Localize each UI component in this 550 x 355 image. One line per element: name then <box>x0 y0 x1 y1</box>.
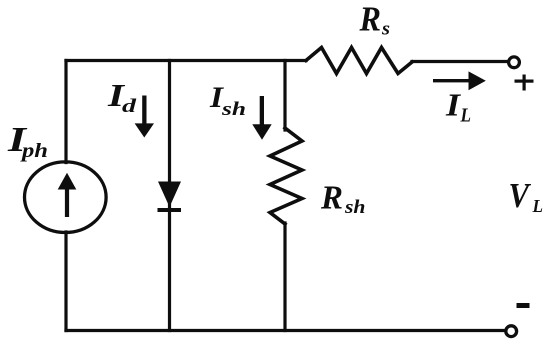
wire left branch lower <box>64 232 67 331</box>
terminal positive <box>509 57 520 68</box>
svg-text:V: V <box>509 176 532 215</box>
wire shunt branch upper <box>283 61 286 131</box>
plus sign <box>515 75 534 91</box>
svg-text:R: R <box>320 180 343 217</box>
wire shunt branch lower <box>283 223 286 331</box>
diode D1 <box>158 182 182 213</box>
svg-text:d: d <box>122 96 137 117</box>
svg-text:ph: ph <box>20 140 48 162</box>
current source arrow <box>58 173 77 217</box>
current arrow Id <box>135 96 154 138</box>
current source Iph circle <box>25 162 107 233</box>
svg-text:I: I <box>445 87 462 123</box>
terminal negative <box>506 326 517 337</box>
svg-text:s: s <box>381 19 390 40</box>
svg-text:L: L <box>532 196 543 216</box>
resistor Rsh zigzag <box>270 128 302 224</box>
svg-text:R: R <box>359 0 381 38</box>
resistor Rs zigzag <box>306 48 412 74</box>
minus sign <box>517 303 530 308</box>
current arrow Ish <box>252 96 271 140</box>
svg-text:sh: sh <box>221 99 246 120</box>
wire top rail left segment <box>66 59 306 62</box>
wire diode branch <box>168 61 171 331</box>
wire top rail right segment <box>412 60 508 63</box>
wire bottom rail <box>66 329 506 332</box>
svg-text:sh: sh <box>344 198 366 218</box>
svg-text:L: L <box>460 106 471 127</box>
wire left branch upper <box>64 61 67 163</box>
current arrow IL <box>433 71 486 90</box>
